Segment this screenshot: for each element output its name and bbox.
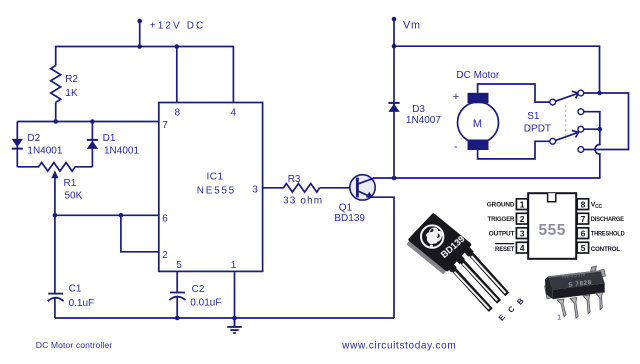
svg-text:D2: D2: [27, 133, 40, 144]
svg-text:7: 7: [162, 120, 168, 131]
svg-text:DC Motor controller: DC Motor controller: [36, 340, 112, 350]
pinout RESET overline: [495, 243, 515, 245]
wire D2 branch: [16, 122, 18, 167]
svg-text:6: 6: [581, 228, 586, 238]
svg-text:8: 8: [175, 107, 181, 118]
node throwA dot: [597, 91, 602, 96]
pinout pin box 3: [516, 228, 527, 239]
svg-text:1: 1: [231, 260, 237, 271]
wire ground rail bottom: [55, 317, 394, 319]
svg-text:3: 3: [252, 185, 258, 196]
svg-text:RESET: RESET: [495, 246, 515, 253]
photo leg B: [465, 247, 508, 294]
svg-text:4: 4: [231, 107, 237, 118]
svg-text:2: 2: [520, 214, 525, 224]
photo BD139 logo bird notch: [430, 229, 440, 239]
capacitor C2: [169, 293, 185, 301]
pinout pin box 1: [516, 199, 527, 210]
svg-text:OUTPUT: OUTPUT: [489, 231, 515, 238]
pinout pin box 8: [577, 199, 588, 210]
switch S1 pole2 lever: [556, 130, 579, 140]
motor M: [458, 93, 499, 150]
node wiper rail dot: [53, 213, 58, 218]
svg-text:E: E: [497, 313, 507, 323]
svg-text:R1: R1: [64, 178, 77, 189]
switch mechanical link: [565, 105, 567, 140]
wire Vm vertical through D3: [393, 46, 395, 178]
node collector dot: [392, 176, 397, 181]
wire R3 to base: [320, 187, 357, 189]
chip top edge highlight: [548, 270, 601, 278]
chip left face: [545, 276, 553, 299]
wire +12V top rail: [56, 47, 234, 103]
photo leg E: [447, 263, 490, 310]
svg-text:M: M: [473, 118, 482, 130]
wire Vm stub: [393, 19, 395, 46]
node Vm rail dot: [392, 44, 397, 49]
chip back pins right: [591, 266, 606, 277]
photo BD139 side face: [406, 240, 447, 274]
pinout notch: [548, 193, 556, 202]
node Vm dot: [392, 17, 397, 22]
node +12V rail dot: [137, 44, 142, 49]
diode D3: [388, 102, 399, 112]
wire throwC stub: [584, 128, 600, 130]
svg-text:www.circuitstoday.com: www.circuitstoday.com: [341, 341, 456, 352]
svg-text:1: 1: [520, 199, 525, 209]
pinout pin box 2: [516, 213, 527, 224]
switch throw contact D: [578, 147, 584, 153]
chip front pin 2: [570, 298, 578, 319]
wire D1 branch: [91, 122, 93, 167]
node ground rail dot: [232, 316, 237, 321]
switch throw contact B: [578, 109, 584, 115]
wire emitter down: [371, 197, 394, 318]
wire C1 to rail: [54, 298, 56, 319]
wire node1 rail to pin7: [17, 121, 159, 123]
wire pin3 lead: [263, 187, 281, 189]
wire motor plus to switch common1: [478, 84, 550, 102]
svg-text:1N4001: 1N4001: [27, 145, 62, 156]
transistor Q1: [350, 175, 375, 200]
switch S1 pole1 lever: [556, 91, 579, 101]
svg-text:5: 5: [176, 260, 182, 271]
chip front pin 1: [557, 299, 566, 317]
wire pin2 loop: [121, 215, 159, 252]
svg-text:C2: C2: [192, 284, 205, 295]
svg-text:DISCHARGE: DISCHARGE: [591, 216, 625, 223]
svg-text:+: +: [453, 91, 459, 103]
svg-text:C1: C1: [69, 283, 82, 294]
photo leg C: [456, 254, 499, 301]
switch throw contact A: [578, 90, 584, 96]
NE555 CHIP PHOTO: [545, 266, 606, 322]
resistor R3: [281, 184, 320, 193]
photo BD139 logo tail dot: [430, 245, 433, 248]
wiper arrow: [51, 170, 58, 178]
svg-text:33 ohm: 33 ohm: [283, 196, 323, 207]
svg-text:R2: R2: [65, 74, 78, 85]
chip front pin 3: [583, 295, 590, 314]
svg-text:D3: D3: [412, 104, 425, 115]
pinout body 555: [528, 193, 576, 259]
svg-text:NE555: NE555: [197, 186, 236, 197]
node R2 bottom dot: [53, 119, 58, 124]
node C2 rail dot: [175, 316, 180, 321]
svg-text:IC1: IC1: [207, 172, 224, 183]
svg-text:CONTROL: CONTROL: [591, 246, 620, 253]
resistor R2: [51, 66, 61, 103]
wire pin1 lead: [234, 271, 236, 318]
wire R1 wiper: [54, 177, 56, 216]
svg-text:1N4001: 1N4001: [104, 145, 139, 156]
wire node2 rail to pin6: [55, 214, 159, 216]
svg-text:DPDT: DPDT: [524, 124, 551, 135]
BD139 PHOTO: [406, 215, 526, 322]
svg-text:0.1uF: 0.1uF: [69, 298, 95, 309]
node pin8 rail dot: [175, 44, 180, 49]
chip front face: [553, 283, 605, 299]
capacitor C1: [48, 294, 64, 302]
switch throw contact C: [578, 126, 584, 132]
svg-text:555: 555: [539, 222, 566, 239]
svg-text:GROUND: GROUND: [487, 202, 515, 209]
svg-text:+12V DC: +12V DC: [150, 21, 206, 32]
node +12V dot: [137, 19, 142, 24]
photo BD139 hole ring: [421, 225, 443, 247]
ground: [227, 318, 241, 333]
svg-text:B: B: [515, 296, 526, 306]
wire pin5 lead: [176, 271, 178, 292]
555 PINOUT DIAGRAM: [487, 193, 625, 259]
svg-text:DC Motor: DC Motor: [456, 70, 499, 81]
pinout pin box 6: [577, 228, 588, 239]
resistor R1: [17, 163, 92, 172]
svg-text:1N4007: 1N4007: [406, 115, 441, 126]
svg-text:R3: R3: [288, 174, 301, 185]
node pin2 branch dot: [119, 213, 124, 218]
svg-text:C: C: [506, 304, 517, 314]
svg-text:2: 2: [162, 250, 168, 261]
svg-text:Q1: Q1: [339, 203, 353, 214]
svg-text:BD139: BD139: [334, 213, 365, 224]
svg-text:0.01uF: 0.01uF: [190, 298, 221, 309]
wire collector to node: [373, 177, 394, 179]
wire top right rail: [394, 46, 600, 93]
wire pin8 drop: [176, 47, 178, 103]
chip front pin 4: [596, 292, 603, 309]
chip left pin: [545, 285, 552, 299]
svg-text:S1: S1: [527, 111, 540, 122]
chip top face: [548, 270, 605, 290]
svg-text:1K: 1K: [65, 88, 78, 99]
wire throwA cross to throwD: [584, 93, 629, 150]
photo BD139 body: [410, 215, 469, 269]
svg-text:TRIGGER: TRIGGER: [488, 216, 515, 223]
svg-text:VCC: VCC: [591, 202, 603, 211]
wire C1 branch: [54, 215, 56, 293]
svg-text:THRESHOLD: THRESHOLD: [591, 231, 625, 238]
pinout pin box 7: [577, 213, 588, 224]
svg-text:1: 1: [557, 313, 561, 322]
pinout pin box 5: [577, 242, 588, 253]
wire C2 to rail: [176, 296, 178, 318]
svg-text:3: 3: [520, 228, 525, 238]
diode D1: [87, 139, 98, 149]
node D1 top dot: [90, 119, 95, 124]
pinout pin box 4: [516, 242, 527, 253]
svg-text:-: -: [454, 141, 458, 153]
switch common contact 2: [550, 138, 556, 144]
svg-text:Vm: Vm: [403, 19, 421, 31]
svg-text:5: 5: [581, 243, 586, 253]
wire throwB down to throwC node: [584, 112, 600, 130]
svg-text:6: 6: [162, 214, 168, 225]
wire +12V stub: [139, 21, 141, 47]
svg-text:50K: 50K: [65, 191, 83, 202]
op-amp U1 : IC1 NE555 box: [159, 103, 263, 272]
svg-text:8: 8: [581, 199, 586, 209]
wire node to collector rail with hop: [394, 129, 600, 178]
node throwC dot: [598, 127, 603, 132]
photo BD139 logo bird: [426, 228, 443, 245]
switch common contact 1: [550, 99, 556, 105]
wire R2 bottom lead: [55, 102, 57, 121]
wire motor minus to switch common2: [478, 141, 550, 159]
diode D2: [12, 139, 23, 150]
svg-text:D1: D1: [103, 133, 116, 144]
svg-text:4: 4: [520, 243, 525, 253]
svg-text:7: 7: [581, 214, 586, 224]
